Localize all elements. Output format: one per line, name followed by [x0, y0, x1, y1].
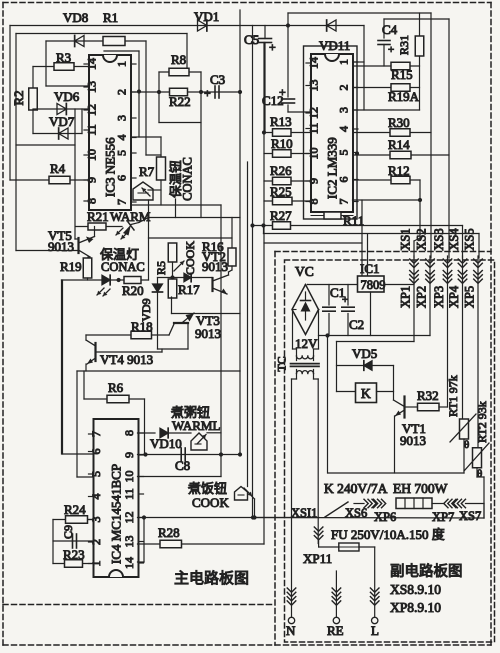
svg-text:主电路板图: 主电路板图 [174, 569, 249, 587]
svg-text:2: 2 [115, 89, 129, 95]
svg-text:+: + [269, 40, 276, 54]
svg-text:XS3: XS3 [432, 228, 446, 250]
svg-text:COOK: COOK [192, 495, 229, 510]
svg-text:7809: 7809 [361, 278, 386, 292]
svg-text:2: 2 [337, 85, 351, 91]
svg-text:WARM: WARM [110, 209, 151, 224]
svg-text:R31: R31 [397, 35, 411, 55]
svg-text:R7: R7 [139, 164, 155, 179]
svg-text:θ: θ [464, 439, 469, 451]
svg-text:R27: R27 [270, 208, 292, 223]
svg-text:13: 13 [122, 536, 136, 548]
svg-text:R21: R21 [87, 209, 109, 224]
svg-text:K: K [361, 386, 371, 401]
svg-text:9013: 9013 [195, 326, 221, 341]
svg-text:EH 700W: EH 700W [393, 481, 448, 496]
svg-text:R24: R24 [64, 502, 86, 517]
svg-text:3: 3 [115, 115, 129, 121]
svg-text:XS2: XS2 [415, 228, 429, 250]
svg-text:9013: 9013 [400, 433, 426, 448]
svg-text:FU 250V/10A.150 度: FU 250V/10A.150 度 [331, 527, 445, 542]
svg-text:VD5: VD5 [352, 346, 377, 361]
svg-text:VD7: VD7 [49, 114, 75, 129]
svg-text:R5: R5 [154, 261, 168, 275]
svg-text:R32: R32 [417, 388, 439, 403]
svg-text:R20: R20 [122, 283, 144, 298]
svg-text:RT2 93k: RT2 93k [475, 401, 489, 443]
svg-text:CONAC: CONAC [181, 157, 195, 201]
svg-text:XS4: XS4 [447, 228, 461, 251]
svg-text:TC: TC [275, 356, 289, 371]
svg-text:XP11: XP11 [303, 551, 332, 566]
svg-text:R14: R14 [388, 137, 410, 152]
svg-text:R18: R18 [131, 319, 153, 334]
svg-text:IC4 MC14541BCP: IC4 MC14541BCP [109, 464, 124, 564]
svg-text:C4: C4 [382, 22, 398, 37]
svg-text:C8: C8 [175, 458, 190, 473]
svg-text:CONAC: CONAC [101, 260, 145, 274]
svg-text:R4: R4 [50, 161, 66, 176]
svg-text:R22: R22 [169, 94, 191, 109]
svg-text:VD8: VD8 [63, 10, 88, 25]
svg-text:θ: θ [477, 468, 482, 480]
svg-text:1: 1 [337, 59, 351, 65]
svg-text:XS5: XS5 [463, 228, 477, 250]
svg-text:XP7: XP7 [432, 510, 454, 524]
svg-text:XSI1: XSI1 [291, 506, 317, 520]
svg-text:COOK: COOK [183, 241, 197, 275]
svg-text:RE: RE [327, 623, 344, 638]
svg-text:14: 14 [122, 557, 136, 569]
svg-text:XP1: XP1 [399, 286, 413, 308]
svg-text:XP6: XP6 [374, 510, 396, 524]
svg-text:C2: C2 [349, 317, 364, 332]
svg-text:IC1: IC1 [360, 261, 380, 276]
svg-text:XP2: XP2 [415, 286, 429, 308]
svg-text:N: N [286, 623, 296, 638]
svg-text:R3: R3 [56, 50, 71, 65]
svg-text:R6: R6 [108, 380, 124, 395]
svg-text:R10: R10 [271, 136, 293, 151]
svg-text:12: 12 [122, 512, 136, 524]
svg-text:R23: R23 [63, 547, 85, 562]
svg-text:煮饭钮: 煮饭钮 [188, 481, 227, 496]
svg-text:R26: R26 [270, 163, 292, 178]
svg-text:R19A: R19A [388, 89, 420, 104]
svg-text:R19: R19 [60, 259, 82, 274]
svg-text:VD10: VD10 [150, 436, 182, 451]
svg-text:C5: C5 [244, 32, 259, 47]
svg-text:R13: R13 [270, 114, 292, 129]
svg-text:VD6: VD6 [54, 89, 80, 104]
svg-text:XP8.9.10: XP8.9.10 [390, 600, 441, 615]
svg-text:VC: VC [295, 264, 314, 279]
svg-text:4: 4 [337, 126, 351, 132]
svg-text:C3: C3 [210, 72, 225, 87]
svg-text:8: 8 [122, 430, 136, 436]
svg-text:R30: R30 [388, 115, 410, 130]
svg-text:R25: R25 [270, 184, 292, 199]
svg-text:R8: R8 [171, 52, 186, 67]
svg-text:R28: R28 [158, 525, 180, 540]
svg-text:IC2 LM339: IC2 LM339 [325, 137, 340, 199]
svg-text:XS8.9.10: XS8.9.10 [390, 582, 441, 597]
svg-text:+: + [204, 86, 211, 100]
svg-text:XP5: XP5 [463, 286, 477, 308]
svg-text:+: + [279, 85, 286, 99]
svg-text:11: 11 [122, 488, 136, 500]
svg-text:RT1 97k: RT1 97k [446, 375, 460, 417]
svg-text:XS6: XS6 [345, 506, 367, 520]
svg-text:R15: R15 [391, 67, 413, 82]
svg-text:VD1: VD1 [194, 9, 219, 24]
svg-text:副电路板图: 副电路板图 [390, 562, 463, 580]
svg-text:XS7: XS7 [459, 509, 481, 523]
svg-text:R17: R17 [178, 282, 200, 297]
svg-text:R12: R12 [388, 163, 410, 178]
svg-text:IC3 NE556: IC3 NE556 [103, 137, 118, 197]
svg-text:3: 3 [337, 107, 351, 113]
svg-text:WARML: WARML [172, 418, 220, 433]
svg-text:9013: 9013 [48, 239, 74, 254]
svg-text:9: 9 [122, 452, 136, 458]
svg-text:1: 1 [115, 61, 129, 67]
svg-text:L: L [371, 623, 379, 638]
svg-text:XP3: XP3 [432, 286, 446, 308]
svg-text:VT4 9013: VT4 9013 [100, 352, 153, 367]
svg-text:C9: C9 [61, 525, 75, 539]
svg-text:XS1: XS1 [399, 228, 413, 250]
svg-text:XP4: XP4 [447, 285, 461, 308]
svg-text:7: 7 [115, 199, 129, 205]
svg-text:10: 10 [122, 471, 136, 483]
svg-text:K 240V/7A: K 240V/7A [324, 481, 388, 496]
svg-text:R1: R1 [103, 10, 118, 25]
svg-text:+: + [342, 294, 348, 306]
svg-text:R2: R2 [11, 90, 26, 105]
svg-text:9013: 9013 [202, 259, 228, 274]
svg-text:+: + [388, 44, 394, 56]
